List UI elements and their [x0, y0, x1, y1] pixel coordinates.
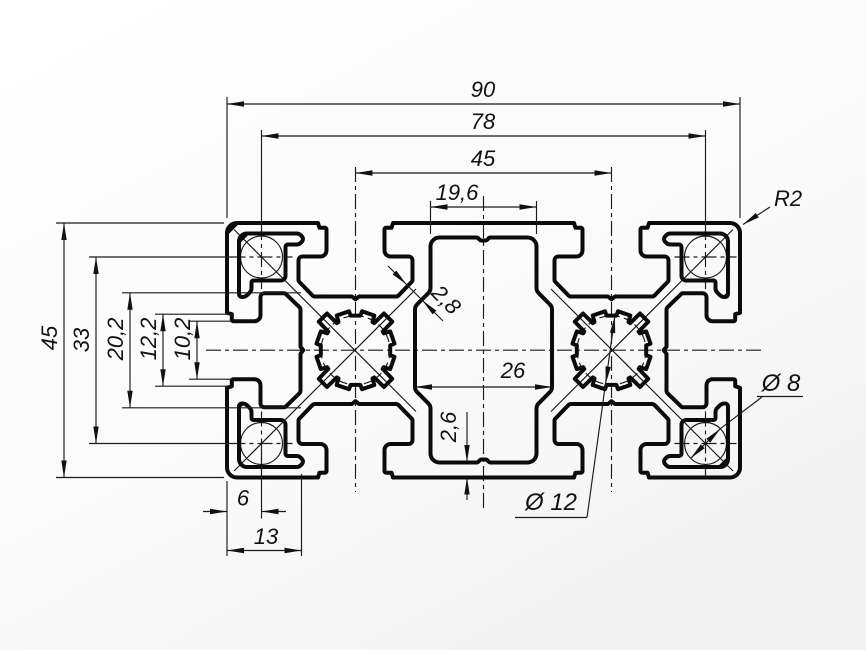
- diameter label 8: [691, 429, 721, 459]
- corner screw holes diameter 8: [241, 236, 283, 278]
- left boss diameter 12 circle: [321, 316, 390, 385]
- right boss vertical centerline: [611, 167, 613, 492]
- profile center vertical centerline: [483, 196, 485, 509]
- top-left corner chamber: [239, 233, 303, 297]
- dimension 12.2: [155, 313, 234, 315]
- svg-text:12,2: 12,2: [136, 318, 161, 361]
- dimension 90: [226, 97, 228, 218]
- diagonal centerlines: [234, 230, 416, 412]
- dimension 2.8: [388, 266, 443, 321]
- top-right corner chamber: [664, 233, 728, 297]
- svg-text:90: 90: [471, 77, 496, 102]
- profile outer contour with T-slots: [227, 223, 740, 478]
- svg-text:Ø 12: Ø 12: [524, 489, 577, 516]
- svg-text:10,2: 10,2: [170, 318, 195, 361]
- dimension 6: [226, 481, 228, 556]
- dimension 45 left: [56, 222, 224, 224]
- dimension 20.2: [122, 292, 301, 294]
- dimension 19.6: [430, 201, 432, 234]
- svg-text:6: 6: [237, 486, 250, 511]
- diameter label 12: [515, 517, 587, 519]
- svg-text:Ø 8: Ø 8: [761, 370, 801, 397]
- svg-text:45: 45: [471, 146, 496, 171]
- dimension 26: [415, 386, 552, 388]
- horizontal centerline: [206, 349, 762, 351]
- bottom-left corner chamber: [239, 403, 303, 467]
- svg-text:R2: R2: [774, 186, 802, 211]
- dimension 10.2: [189, 320, 232, 322]
- svg-text:19,6: 19,6: [436, 180, 480, 205]
- right boss fluted bore: [573, 311, 651, 389]
- svg-text:26: 26: [500, 358, 526, 383]
- dimension 33: [89, 256, 231, 258]
- right boss diameter 12 circle: [577, 316, 646, 385]
- dimension 78: [261, 130, 263, 224]
- left boss fluted bore: [317, 311, 395, 389]
- svg-text:13: 13: [254, 524, 279, 549]
- radius label R2: [743, 207, 770, 225]
- svg-text:20,2: 20,2: [103, 318, 128, 362]
- central cavity: [415, 238, 552, 463]
- svg-text:78: 78: [471, 109, 496, 134]
- dimension 13: [301, 474, 303, 556]
- bottom-right corner chamber: [664, 403, 728, 467]
- dimension 45 top: [356, 172, 612, 174]
- corner hole centerlines: [231, 256, 293, 258]
- svg-text:45: 45: [37, 325, 62, 350]
- dimension 2.6: [466, 412, 468, 462]
- svg-text:33: 33: [69, 327, 94, 352]
- svg-text:2,6: 2,6: [436, 411, 461, 443]
- left boss vertical centerline: [355, 167, 357, 492]
